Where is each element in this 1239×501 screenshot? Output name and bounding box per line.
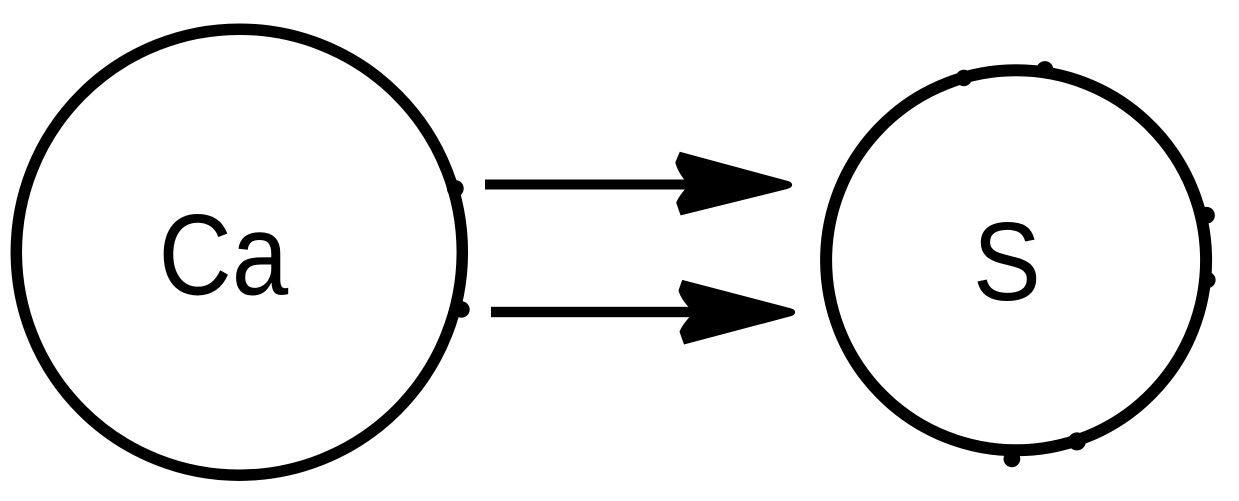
- arrow 2 shaft: [491, 307, 703, 317]
- electron dot S right-lower: [1199, 272, 1215, 288]
- arrow 1 shaft: [485, 180, 695, 190]
- electron dot S top-left: [956, 70, 972, 86]
- electron dot S bottom-left: [1004, 450, 1021, 467]
- electron dot S bottom-right: [1068, 432, 1086, 450]
- atom circle S: [826, 70, 1206, 450]
- electron dot S right-upper: [1198, 207, 1215, 224]
- arrow 1 head: [675, 152, 792, 216]
- arrow 2 head: [679, 280, 796, 345]
- svg-text:S: S: [973, 199, 1041, 324]
- electron dot Ca bottom: [453, 301, 469, 317]
- atom circle Ca: [16, 29, 462, 475]
- svg-text:Ca: Ca: [159, 192, 289, 320]
- electron dot Ca top: [447, 180, 464, 197]
- electron dot S top-right: [1037, 61, 1054, 78]
